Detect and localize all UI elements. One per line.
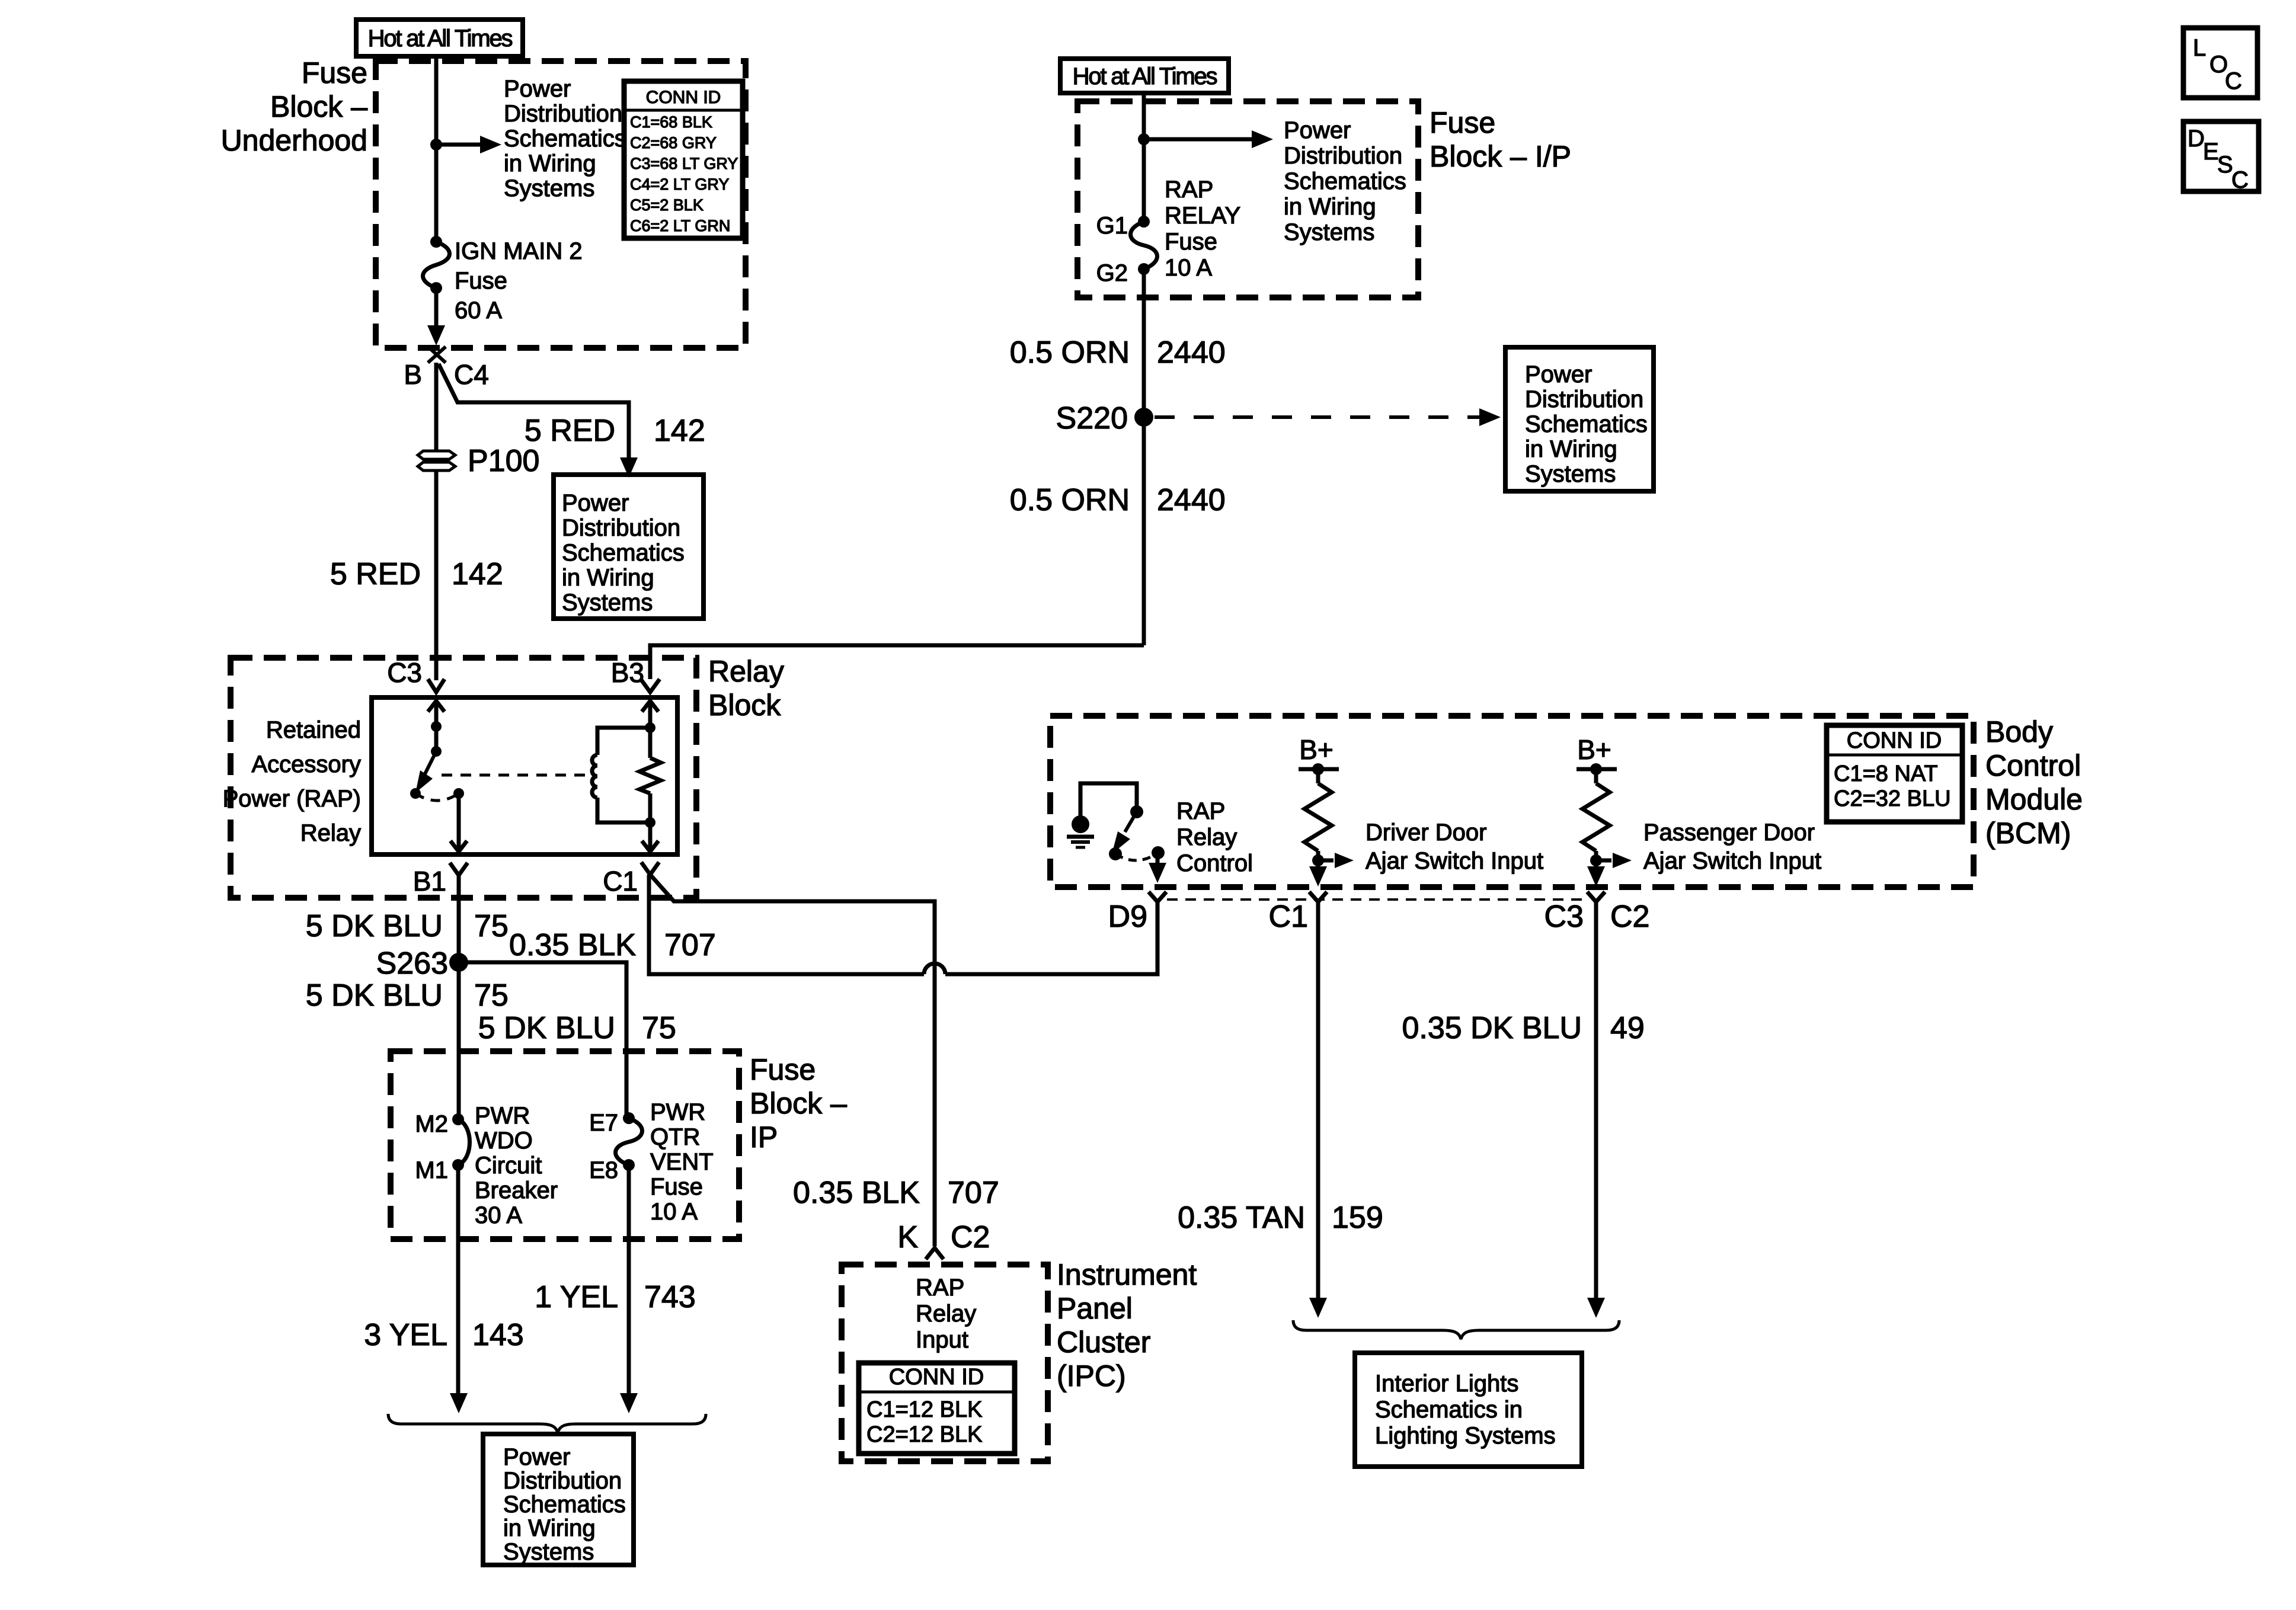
svg-text:S263: S263 <box>376 946 448 981</box>
svg-text:Relay: Relay <box>1176 824 1237 850</box>
svg-text:743: 743 <box>644 1280 696 1314</box>
wire: S220 down and left to relay B3 <box>1142 417 1146 645</box>
info box: Power Distribution Schematics in Wiring Systems (bottom) <box>483 1434 634 1565</box>
wire: B1 to splice S263 <box>457 875 461 962</box>
resistor: passenger door pull-up <box>1594 769 1598 783</box>
svg-text:Block – I/P: Block – I/P <box>1430 140 1571 173</box>
wire: G2 to splice S220 (0.5 ORN 2440) <box>1142 269 1146 417</box>
svg-text:Ajar Switch Input: Ajar Switch Input <box>1366 848 1543 874</box>
svg-text:RELAY: RELAY <box>1165 203 1240 229</box>
svg-text:E: E <box>2203 139 2219 165</box>
svg-text:Power: Power <box>503 1444 570 1470</box>
svg-text:Systems: Systems <box>562 590 653 616</box>
svg-text:Passenger Door: Passenger Door <box>1643 820 1815 846</box>
relay switch: common from C3 <box>428 701 445 712</box>
info box: Power Distribution Schematics in Wiring Systems (S220) <box>1505 347 1654 491</box>
fuse: RAP RELAY Fuse 10 A (G1/G2) <box>1138 216 1150 228</box>
svg-text:5 DK BLU: 5 DK BLU <box>306 978 443 1013</box>
svg-text:Systems: Systems <box>503 1539 594 1565</box>
svg-text:Interior Lights: Interior Lights <box>1375 1371 1518 1397</box>
svg-text:C3: C3 <box>387 657 422 688</box>
wire: branch 5 RED 142 to power distribution <box>439 364 629 457</box>
svg-text:Fuse: Fuse <box>455 268 507 294</box>
brace: to power distribution <box>388 1414 706 1433</box>
svg-text:Systems: Systems <box>504 175 594 201</box>
svg-text:60 A: 60 A <box>455 297 502 324</box>
connector B / C4 (inline) <box>428 347 446 363</box>
pins C3 / C2 of BCM <box>1587 892 1605 902</box>
svg-text:Distribution: Distribution <box>1525 386 1643 412</box>
svg-text:0.5 ORN: 0.5 ORN <box>1010 483 1130 517</box>
relay mechanical link (dashed) <box>442 774 596 777</box>
svg-text:Distribution: Distribution <box>1284 143 1402 169</box>
svg-text:C2=32 BLU: C2=32 BLU <box>1834 786 1951 811</box>
svg-text:Circuit: Circuit <box>475 1153 542 1179</box>
svg-text:Block: Block <box>708 689 781 722</box>
svg-text:0.35 DK BLU: 0.35 DK BLU <box>1402 1011 1582 1045</box>
wire: C4 to P100 <box>434 363 439 452</box>
svg-text:5 RED: 5 RED <box>330 557 421 591</box>
svg-text:Schematics: Schematics <box>1284 168 1406 194</box>
svg-text:Relay: Relay <box>300 820 361 846</box>
svg-text:Hot at All Times: Hot at All Times <box>1073 63 1217 89</box>
splice S220 <box>1134 408 1153 427</box>
svg-text:3 YEL: 3 YEL <box>364 1318 447 1352</box>
BCM connector row (thin dashed) <box>1167 898 1587 901</box>
svg-text:C2: C2 <box>1610 900 1649 934</box>
svg-text:WDO: WDO <box>475 1128 533 1154</box>
relay coil resistor <box>648 728 653 758</box>
svg-text:Schematics: Schematics <box>503 1491 626 1518</box>
DESC legend box <box>2183 121 2259 191</box>
wire: coil to C1 <box>648 822 653 850</box>
arrow: passenger door ajar switch input <box>1596 859 1611 863</box>
svg-text:C3: C3 <box>1544 900 1584 934</box>
svg-text:5 DK BLU: 5 DK BLU <box>306 909 443 943</box>
svg-text:Module: Module <box>1985 783 2083 816</box>
svg-text:CONN ID: CONN ID <box>646 88 721 107</box>
svg-text:Relay: Relay <box>708 655 784 688</box>
arrow: driver door ajar switch input <box>1318 859 1334 863</box>
svg-text:Accessory: Accessory <box>252 751 362 777</box>
wire: arrow to power distribution schematics <box>1144 137 1254 142</box>
svg-text:Block –: Block – <box>750 1087 847 1120</box>
svg-text:C1=12 BLK: C1=12 BLK <box>866 1397 982 1422</box>
info box: Interior Lights Schematics in Lighting Systems <box>1355 1353 1582 1467</box>
svg-text:B+: B+ <box>1577 734 1611 765</box>
svg-text:C: C <box>2231 167 2249 193</box>
svg-text:S: S <box>2217 152 2233 178</box>
wire: battery feed into IGN MAIN 2 fuse <box>434 54 439 242</box>
wire: arrow to power distribution schematics <box>436 143 482 147</box>
svg-text:143: 143 <box>472 1318 524 1352</box>
svg-text:Power: Power <box>562 490 629 516</box>
svg-text:IGN MAIN 2: IGN MAIN 2 <box>455 238 583 264</box>
svg-text:B: B <box>404 359 422 390</box>
svg-text:Systems: Systems <box>1525 461 1616 487</box>
svg-text:C1=8 NAT: C1=8 NAT <box>1834 761 1938 786</box>
svg-text:E8: E8 <box>589 1157 618 1183</box>
svg-text:Input: Input <box>916 1327 968 1353</box>
svg-text:0.35 TAN: 0.35 TAN <box>1178 1201 1305 1235</box>
svg-text:Schematics: Schematics <box>562 540 685 566</box>
svg-text:75: 75 <box>474 909 509 943</box>
BCM switch arm <box>1125 812 1137 832</box>
svg-text:159: 159 <box>1332 1201 1383 1235</box>
svg-text:B+: B+ <box>1299 734 1334 765</box>
fuse block underhood (dashed box) <box>376 61 746 348</box>
svg-text:RAP: RAP <box>1176 798 1225 824</box>
CONN ID table (BCM) <box>1827 725 1962 822</box>
wire hop over IPC branch <box>924 964 945 974</box>
svg-text:E7: E7 <box>589 1110 618 1136</box>
svg-text:707: 707 <box>664 928 716 962</box>
svg-text:49: 49 <box>1610 1011 1645 1045</box>
svg-text:0.35 BLK: 0.35 BLK <box>509 928 636 962</box>
svg-text:PWR: PWR <box>650 1099 705 1125</box>
svg-text:(IPC): (IPC) <box>1057 1359 1126 1393</box>
svg-text:L: L <box>2193 35 2206 61</box>
svg-text:C6=2 LT GRN: C6=2 LT GRN <box>630 217 730 235</box>
wire: BCM C2 to interior lights (0.35 DK BLU 49) <box>1594 902 1598 1298</box>
fuse F: IGN MAIN 2 Fuse 60 A <box>430 236 442 248</box>
svg-text:75: 75 <box>474 978 509 1013</box>
svg-text:Schematics: Schematics <box>504 126 626 152</box>
svg-text:QTR: QTR <box>650 1124 700 1150</box>
svg-text:Schematics in: Schematics in <box>1375 1397 1523 1423</box>
svg-text:Fuse: Fuse <box>1165 229 1217 255</box>
svg-text:M2: M2 <box>415 1111 448 1137</box>
body control module BCM (dashed box) <box>1050 716 1974 887</box>
svg-text:PWR: PWR <box>475 1103 530 1129</box>
wire: RAP relay control output to D9 <box>1156 853 1160 863</box>
svg-text:142: 142 <box>452 557 503 591</box>
svg-text:Ajar Switch Input: Ajar Switch Input <box>1643 848 1821 874</box>
svg-text:Power (RAP): Power (RAP) <box>223 786 361 812</box>
svg-text:C1=68 BLK: C1=68 BLK <box>630 113 712 131</box>
brace: to interior lights schematics <box>1293 1320 1619 1339</box>
CONN ID table (fuse block underhood) <box>624 81 743 238</box>
wire: S263 down to circuit breaker M2 <box>457 962 461 1119</box>
ground (BCM internal) <box>1072 815 1089 833</box>
svg-text:Retained: Retained <box>266 717 361 743</box>
svg-text:Underhood: Underhood <box>221 124 367 157</box>
svg-text:C2=12 BLK: C2=12 BLK <box>866 1422 982 1447</box>
BCM switch throw (dashed) <box>1115 853 1158 860</box>
svg-text:Fuse: Fuse <box>302 56 367 89</box>
svg-text:Power: Power <box>504 76 571 102</box>
node: junction to power distribution <box>430 139 442 151</box>
svg-text:10 A: 10 A <box>1165 255 1212 281</box>
svg-text:Schematics: Schematics <box>1525 411 1648 437</box>
label: Hot at All Times (IP feed) <box>1060 59 1229 93</box>
svg-text:Cluster: Cluster <box>1057 1326 1150 1359</box>
svg-text:C1: C1 <box>1269 900 1308 934</box>
svg-text:30 A: 30 A <box>475 1202 522 1228</box>
svg-text:Power: Power <box>1284 117 1351 143</box>
svg-text:C1: C1 <box>603 866 638 897</box>
svg-text:in Wiring: in Wiring <box>1284 194 1376 220</box>
fuse: PWR QTR VENT 10 A (E7/E8) <box>623 1112 635 1124</box>
svg-text:75: 75 <box>642 1011 676 1045</box>
circuit breaker: PWR WDO 30 A (M2/M1) <box>452 1113 464 1125</box>
wire: relay C1 branch to IPC K (0.35 BLK 707) <box>650 875 935 1246</box>
svg-text:Fuse: Fuse <box>1430 106 1495 139</box>
pin D9 of BCM <box>1149 892 1166 902</box>
LOC legend box <box>2183 28 2257 98</box>
svg-text:707: 707 <box>948 1176 999 1210</box>
svg-text:Distribution: Distribution <box>503 1468 622 1494</box>
RAP relay (inner box) <box>372 697 677 854</box>
relay switch arm <box>425 751 436 774</box>
pin C1 of BCM <box>1309 892 1327 902</box>
svg-text:VENT: VENT <box>650 1149 714 1175</box>
svg-text:in Wiring: in Wiring <box>1525 436 1617 462</box>
svg-text:Control: Control <box>1176 850 1253 876</box>
resistor: driver door pull-up <box>1316 769 1320 783</box>
svg-text:0.5 ORN: 0.5 ORN <box>1010 335 1130 370</box>
svg-text:G1: G1 <box>1096 213 1128 239</box>
svg-text:Distribution: Distribution <box>562 515 680 541</box>
node: junction to power distribution <box>1138 133 1150 145</box>
svg-text:10 A: 10 A <box>650 1199 698 1225</box>
svg-text:B3: B3 <box>611 657 644 688</box>
dashed arrow: S220 to power distribution <box>1155 415 1480 419</box>
svg-text:Distribution: Distribution <box>504 101 622 127</box>
svg-text:in Wiring: in Wiring <box>504 151 596 177</box>
svg-text:IP: IP <box>750 1121 778 1154</box>
svg-text:Fuse: Fuse <box>650 1174 703 1200</box>
wire: P100 down to relay block C3 <box>434 470 439 680</box>
wire: switch output to B1 <box>457 793 461 850</box>
svg-text:Systems: Systems <box>1284 219 1374 245</box>
svg-text:C5=2 BLK: C5=2 BLK <box>630 196 703 214</box>
svg-text:Body: Body <box>1985 715 2053 748</box>
svg-text:RAP: RAP <box>1165 177 1213 203</box>
svg-text:Power: Power <box>1525 361 1592 388</box>
svg-text:K: K <box>897 1220 918 1254</box>
svg-text:C3=68 LT GRY: C3=68 LT GRY <box>630 155 738 172</box>
instrument panel cluster IPC (dashed box) <box>842 1265 1048 1461</box>
wire: fuse output to connector C4 <box>434 288 439 327</box>
svg-text:2440: 2440 <box>1157 483 1226 517</box>
svg-text:CONN ID: CONN ID <box>889 1365 984 1390</box>
splice S263 <box>449 953 468 972</box>
svg-text:Instrument: Instrument <box>1057 1258 1197 1291</box>
wire: B3 riser to S220 branch <box>650 645 1144 679</box>
svg-text:(BCM): (BCM) <box>1985 817 2071 850</box>
CONN ID table (IPC) <box>859 1363 1015 1454</box>
svg-text:in Wiring: in Wiring <box>503 1515 596 1541</box>
svg-text:C4=2 LT GRY: C4=2 LT GRY <box>630 175 729 193</box>
svg-text:Control: Control <box>1985 749 2081 782</box>
info box: Power Distribution Schematics in Wiring Systems <box>554 475 703 619</box>
svg-text:Hot at All Times: Hot at All Times <box>368 25 513 52</box>
relay coil loop (inductor) <box>597 728 650 755</box>
svg-text:C4: C4 <box>454 359 489 390</box>
svg-text:C2: C2 <box>951 1220 990 1254</box>
svg-text:Panel: Panel <box>1057 1292 1133 1325</box>
svg-text:Block –: Block – <box>270 90 367 123</box>
svg-text:B1: B1 <box>413 866 446 897</box>
svg-text:Breaker: Breaker <box>475 1177 558 1204</box>
svg-text:G2: G2 <box>1096 260 1128 286</box>
svg-text:S220: S220 <box>1056 401 1128 436</box>
svg-text:5 DK BLU: 5 DK BLU <box>478 1011 615 1045</box>
svg-text:Lighting Systems: Lighting Systems <box>1375 1423 1556 1449</box>
svg-text:C2=68 GRY: C2=68 GRY <box>630 134 717 152</box>
relay block (dashed box) <box>231 658 696 898</box>
relay coil branch from B3 <box>642 701 658 712</box>
svg-text:142: 142 <box>654 414 705 448</box>
wire: E8 output 1 YEL 743 <box>627 1165 631 1394</box>
svg-text:Driver Door: Driver Door <box>1366 820 1486 846</box>
svg-text:0.35 BLK: 0.35 BLK <box>793 1176 920 1210</box>
svg-text:P100: P100 <box>468 444 539 478</box>
fuse block I/P (dashed box) <box>1077 101 1418 297</box>
svg-text:5 RED: 5 RED <box>525 414 615 448</box>
wire: feed into RAP RELAY fuse <box>1142 93 1146 222</box>
svg-text:in Wiring: in Wiring <box>562 565 654 591</box>
svg-text:2440: 2440 <box>1157 335 1226 370</box>
wire: ground to RAP relay control switch <box>1080 783 1137 816</box>
svg-text:C: C <box>2225 68 2242 94</box>
svg-text:RAP: RAP <box>916 1275 964 1301</box>
fuse block IP (dashed box) <box>391 1051 739 1239</box>
svg-text:CONN ID: CONN ID <box>1847 728 1942 753</box>
wire: BCM C1 to interior lights (0.35 TAN 159) <box>1316 902 1320 1298</box>
relay switch throw (dashed) <box>415 793 459 801</box>
connector P100 (pass-through grommet) <box>418 451 455 459</box>
svg-text:Relay: Relay <box>916 1301 976 1327</box>
svg-text:Fuse: Fuse <box>750 1053 816 1086</box>
label: Hot at All Times (underhood feed) <box>356 20 523 56</box>
svg-text:D: D <box>2188 126 2205 152</box>
svg-text:D9: D9 <box>1108 900 1147 934</box>
wire: relay C1 to BCM D9 (0.35 BLK 707) <box>649 875 924 974</box>
svg-text:M1: M1 <box>415 1157 448 1183</box>
wire: M1 output 3 YEL 143 <box>456 1165 461 1394</box>
wire: S263 branch to fuse block E7 <box>459 962 626 1118</box>
svg-text:1 YEL: 1 YEL <box>535 1280 618 1314</box>
